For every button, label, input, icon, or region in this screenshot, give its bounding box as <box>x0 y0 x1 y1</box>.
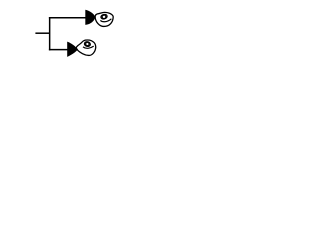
disk bottom: fold line under hole <box>83 46 94 48</box>
disk top: silhouette <box>95 12 113 26</box>
disk bottom: hole rim <box>84 41 91 47</box>
disk top: hole <box>102 15 107 19</box>
arrowhead top <box>85 10 95 25</box>
wire: vertical branch line <box>49 17 51 50</box>
wire: left input stub <box>35 32 49 34</box>
arrowhead bottom <box>67 42 78 57</box>
wire: bottom branch <box>49 49 68 51</box>
wire: top branch <box>49 17 86 19</box>
disk bottom: silhouette <box>76 40 96 55</box>
disk top: fold line under hole <box>100 19 111 22</box>
disk top: hole rim <box>100 14 107 20</box>
disk bottom: hole <box>85 42 89 46</box>
